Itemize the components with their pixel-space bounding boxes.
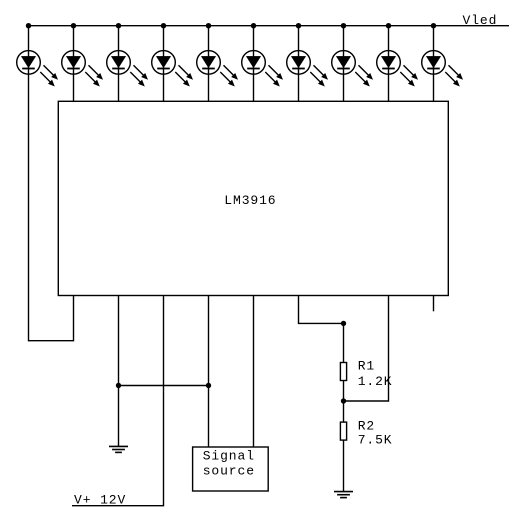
svg-text:R1: R1: [358, 359, 375, 374]
svg-text:Signal: Signal: [203, 449, 255, 464]
svg-text:Vled: Vled: [463, 13, 498, 28]
svg-text:LM3916: LM3916: [224, 193, 276, 208]
svg-text:V+ 12V: V+ 12V: [74, 493, 126, 508]
svg-text:source: source: [203, 464, 255, 479]
svg-text:R2: R2: [358, 419, 375, 434]
svg-text:1.2K: 1.2K: [358, 374, 393, 389]
svg-text:7.5K: 7.5K: [358, 433, 393, 448]
